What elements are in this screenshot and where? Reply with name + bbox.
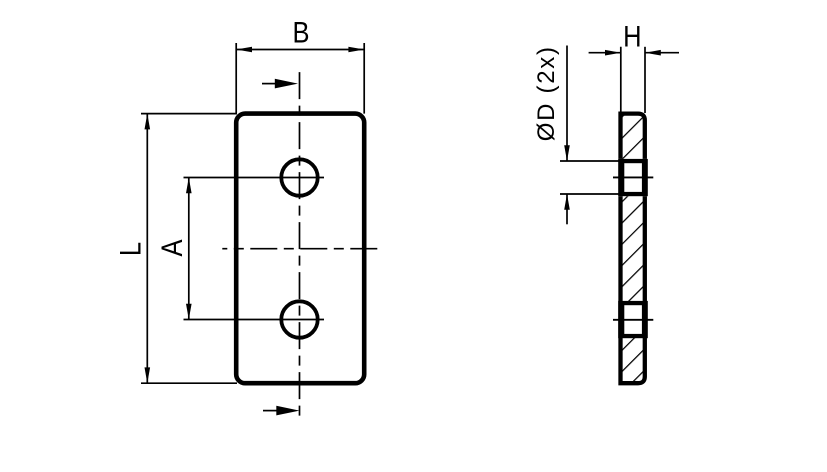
dimension B arrow right (348, 47, 364, 53)
hole band bottom centerline tick (613, 319, 653, 321)
view direction arrow top (262, 83, 278, 85)
dimension H extension line left (620, 47, 622, 113)
dimension A line (188, 178, 190, 320)
view direction arrow bottom (263, 410, 279, 412)
slab outline side view (621, 114, 645, 384)
hole circle top (281, 159, 317, 195)
svg-text:H: H (623, 19, 641, 52)
dimension A arrow top (186, 178, 192, 194)
hole centerline tick bottom / A extension line bottom (184, 319, 325, 321)
dimension B extension line right (363, 43, 365, 114)
dimension H line right (645, 52, 679, 54)
dimension L extension line bottom (141, 382, 237, 384)
svg-text:A: A (155, 239, 188, 256)
dimension B arrow left (236, 47, 252, 53)
dimension A arrow bottom (186, 304, 192, 320)
hole band top: white gap (618, 159, 648, 196)
dimension B line (236, 49, 364, 51)
dimension H line left (589, 52, 621, 54)
hole centerline tick top / A extension line top (184, 177, 325, 179)
dimension B extension line left (235, 43, 237, 114)
svg-text:ØD (2x): ØD (2x) (533, 45, 560, 141)
horizontal centerline (222, 248, 378, 250)
vertical centerline (299, 72, 301, 416)
hole band top centerline tick (613, 176, 653, 178)
dimension OD line bottom with up arrow (566, 194, 568, 224)
dimension H extension line right (644, 47, 646, 113)
dimension L arrow bottom (145, 367, 151, 383)
dimension L line (146, 114, 148, 384)
dimension OD line top with down arrow (566, 46, 568, 162)
dimension L arrow top (145, 114, 151, 130)
dimension OD extension line bottom (560, 193, 623, 195)
hole band bottom: white gap (618, 301, 648, 338)
hole circle bottom (281, 301, 317, 337)
dimension OD extension line top (560, 160, 623, 162)
svg-text:B: B (292, 15, 309, 48)
plate outline front view (236, 114, 364, 384)
svg-text:L: L (114, 242, 147, 256)
dimension L extension line top (141, 113, 237, 115)
